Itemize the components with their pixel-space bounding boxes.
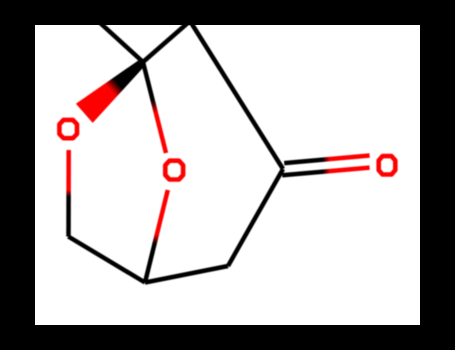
- bond M to R2: [145, 266, 228, 283]
- wire: long bond from top-right down to ketone carbon: [190, 21, 283, 169]
- atom label O3 (ketone oxygen): [379, 156, 396, 174]
- wire: arm right from V1 up to frame: [143, 21, 190, 62]
- bond V1 to O2 (half black / half red): [143, 62, 166, 153]
- atom label O1: [59, 120, 77, 138]
- stereo wedge V1 to O1: [76, 59, 146, 123]
- bond R2 to ketone carbon: [228, 169, 283, 266]
- bond O2 down to M: [145, 190, 168, 283]
- atom label O2: [165, 161, 183, 180]
- wire: arm left from V1 up to frame: [98, 21, 143, 62]
- bond L2 to M: [68, 237, 145, 283]
- white canvas: [35, 25, 420, 325]
- bond O1 down to L2: [66, 150, 71, 237]
- C=O double bond upper line: [284, 156, 369, 164]
- C=O double bond lower line: [282, 168, 369, 176]
- black frame on top: [0, 0, 455, 25]
